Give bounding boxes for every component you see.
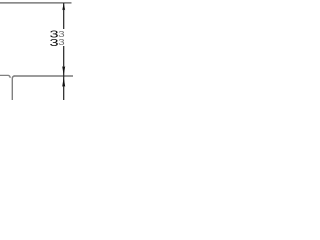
dimension text 33 (stacked digits) (50, 29, 59, 48)
dimension arrow down (at bottom edge line) (62, 66, 65, 75)
lower-left part corner (fillet) and vertical edge (12, 76, 14, 100)
small secondary text (stacked digits, thin) (58, 30, 65, 48)
dimension arrow up (top) (62, 3, 65, 10)
dimension arrow up (below bottom edge line, chained dim) (62, 77, 65, 87)
svg-text:3: 3 (50, 37, 59, 48)
dimension line upper segment (63, 3, 65, 29)
dimension line lower segment (63, 46, 65, 100)
svg-text:3: 3 (58, 38, 65, 47)
bottom part edge line (14, 75, 74, 77)
left part edge with rounded end (0, 75, 10, 77)
top part edge line (0, 2, 72, 4)
